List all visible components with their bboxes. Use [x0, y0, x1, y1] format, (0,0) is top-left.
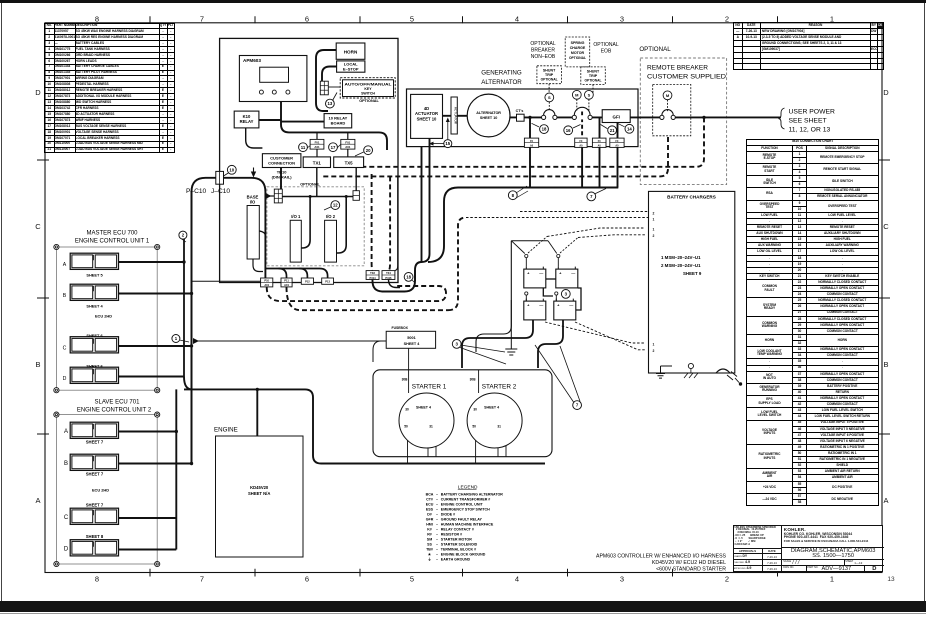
svg-text:APM603: APM603	[243, 58, 261, 63]
svg-text:17: 17	[331, 145, 336, 150]
svg-text:C: C	[63, 346, 67, 352]
svg-text:ECU 2HD: ECU 2HD	[92, 488, 109, 493]
svg-text:OPTIONAL: OPTIONAL	[541, 78, 558, 82]
svg-text:2 MSM–20–24V–U1: 2 MSM–20–24V–U1	[661, 263, 701, 268]
svg-text:K#: K#	[427, 527, 432, 531]
svg-text:15: 15	[445, 141, 450, 146]
svg-text:1: 1	[653, 343, 655, 347]
svg-text:SHEET 10: SHEET 10	[417, 116, 437, 121]
svg-text:<600V STANDARD STARTER: <600V STANDARD STARTER	[656, 567, 726, 573]
svg-text:S: S	[548, 95, 551, 100]
svg-text:31: 31	[429, 424, 433, 428]
svg-text:–: –	[436, 507, 438, 511]
svg-text:DIODE #: DIODE #	[441, 512, 455, 516]
svg-text:–: –	[436, 522, 438, 526]
svg-text:ACTUATOR: ACTUATOR	[454, 107, 458, 125]
svg-text:OPTIONAL: OPTIONAL	[639, 46, 671, 53]
svg-text:F01: F01	[315, 141, 320, 145]
svg-text:11, 12, OR 13: 11, 12, OR 13	[789, 127, 831, 134]
svg-text:STARTER MOTOR: STARTER MOTOR	[441, 537, 472, 541]
svg-text:SHEET 6: SHEET 6	[86, 364, 103, 369]
svg-text:R#: R#	[427, 532, 432, 536]
svg-text:30: 30	[473, 407, 477, 411]
svg-text:CT#: CT#	[426, 497, 433, 501]
svg-text:TX1: TX1	[313, 161, 322, 166]
svg-text:B: B	[63, 293, 67, 299]
svg-text:BREAKER: BREAKER	[531, 48, 555, 54]
svg-text:1 MSM–20–24V–U1: 1 MSM–20–24V–U1	[661, 255, 701, 260]
svg-text:–: –	[436, 517, 438, 521]
svg-text:SHEET 10: SHEET 10	[480, 116, 497, 120]
svg-text:–: –	[436, 537, 438, 541]
svg-text:GFR: GFR	[426, 517, 434, 521]
svg-text:BATTERY CHARGERS: BATTERY CHARGERS	[667, 195, 716, 200]
svg-text:OPTIONAL: OPTIONAL	[584, 79, 601, 83]
svg-text:P11: P11	[284, 279, 289, 283]
svg-text:FUSEBOX: FUSEBOX	[392, 326, 409, 330]
svg-text:SHUNT: SHUNT	[587, 70, 600, 74]
svg-text:A01: A01	[345, 145, 351, 149]
svg-text:20: 20	[366, 148, 371, 153]
svg-text:AUTO/OFF/MANUAL: AUTO/OFF/MANUAL	[345, 82, 393, 86]
svg-text:–: –	[436, 497, 438, 501]
svg-text:TRIP: TRIP	[589, 74, 598, 78]
svg-text:TX5: TX5	[345, 161, 354, 166]
svg-text:18: 18	[406, 274, 411, 279]
svg-text:D: D	[63, 376, 67, 382]
svg-text:OPTIONAL: OPTIONAL	[359, 99, 379, 103]
svg-text:SEE SHEET: SEE SHEET	[789, 118, 827, 125]
svg-text:ECU 2HD: ECU 2HD	[95, 314, 112, 319]
svg-text:A: A	[63, 262, 67, 268]
svg-text:30B: 30B	[470, 378, 477, 382]
svg-text:P10: P10	[264, 279, 269, 283]
svg-text:—: —	[539, 302, 543, 307]
svg-text:P12: P12	[305, 280, 310, 284]
svg-text:13: 13	[328, 101, 333, 106]
svg-text:ENGINE CONTROL UNIT: ENGINE CONTROL UNIT	[441, 502, 484, 506]
svg-text:–: –	[436, 512, 438, 516]
svg-text:A: A	[64, 429, 68, 435]
svg-text:SHEET 7: SHEET 7	[86, 439, 104, 444]
svg-text:A01: A01	[314, 145, 320, 149]
svg-text:SHEET 5: SHEET 5	[86, 273, 103, 278]
svg-text:–: –	[436, 557, 438, 561]
svg-text:ENGINE BLOCK GROUND: ENGINE BLOCK GROUND	[441, 552, 486, 556]
svg-text:SWITCH: SWITCH	[361, 92, 375, 96]
svg-text:SHUNT: SHUNT	[543, 69, 556, 73]
svg-text:–: –	[436, 552, 438, 556]
svg-text:11: 11	[301, 145, 306, 150]
svg-text:12: 12	[333, 203, 338, 208]
svg-text:P314: P314	[370, 276, 377, 280]
svg-text:MASTER ECU 700: MASTER ECU 700	[86, 231, 138, 237]
svg-text:MOTOR: MOTOR	[571, 51, 585, 55]
svg-text:KEY: KEY	[364, 87, 372, 91]
svg-text:—: —	[569, 302, 573, 307]
svg-text:ECU: ECU	[426, 502, 434, 506]
svg-text:ALTERNATOR: ALTERNATOR	[481, 79, 522, 86]
svg-text:E–STOP: E–STOP	[343, 67, 359, 72]
svg-text:2: 2	[653, 234, 655, 238]
svg-text:ESS: ESS	[426, 507, 434, 511]
svg-text:30: 30	[405, 407, 409, 411]
svg-text:SHEET 7: SHEET 7	[86, 503, 104, 508]
svg-text:P316: P316	[385, 276, 392, 280]
svg-text:KD45V20: KD45V20	[250, 485, 269, 490]
svg-text:RELAY: RELAY	[240, 119, 254, 124]
svg-text:I/O 1: I/O 1	[291, 214, 301, 219]
svg-text:D: D	[64, 547, 69, 553]
svg-text:ENGINE CONTROL UNIT 2: ENGINE CONTROL UNIT 2	[77, 408, 152, 414]
svg-text:SHEET 4: SHEET 4	[484, 406, 499, 410]
svg-text:(DIN RAIL): (DIN RAIL)	[272, 175, 293, 180]
svg-text:RELAY CONTACT #: RELAY CONTACT #	[441, 527, 474, 531]
svg-text:TB#: TB#	[426, 547, 433, 551]
svg-text:CUSTOMER SUPPLIED: CUSTOMER SUPPLIED	[647, 74, 727, 81]
svg-text:10: 10	[229, 167, 234, 172]
svg-text:REMOTE BREAKER: REMOTE BREAKER	[647, 65, 709, 72]
svg-text:HUMAN MACHINE INTERFACE: HUMAN MACHINE INTERFACE	[441, 522, 494, 526]
svg-text:K10: K10	[243, 114, 251, 119]
svg-text:21: 21	[610, 128, 615, 133]
svg-text:TX4: TX4	[386, 271, 391, 275]
svg-text:SHEET N/A: SHEET N/A	[248, 491, 270, 496]
svg-text:SHEET 4: SHEET 4	[86, 304, 103, 309]
svg-text:BCA: BCA	[426, 492, 434, 496]
svg-text:P13: P13	[325, 280, 330, 284]
svg-text:18: 18	[542, 127, 547, 132]
svg-text:APM603 CONTROLLER W/ ENHANC: APM603 CONTROLLER W/ ENHANCED I/O HARNES…	[596, 554, 727, 560]
svg-text:—: —	[539, 270, 543, 275]
svg-text:–: –	[436, 542, 438, 546]
svg-text:ENGINE CONTROL UNIT 1: ENGINE CONTROL UNIT 1	[75, 239, 150, 245]
svg-text:–: –	[436, 527, 438, 531]
svg-text:STARTER 2: STARTER 2	[482, 384, 517, 391]
svg-text:STARTER 1: STARTER 1	[412, 384, 447, 391]
svg-text:31: 31	[497, 424, 501, 428]
svg-text:GROUND FAULT RELAY: GROUND FAULT RELAY	[441, 517, 483, 521]
svg-text:SM: SM	[427, 537, 432, 541]
svg-text:OPTIONAL: OPTIONAL	[530, 41, 556, 47]
svg-text:SHEET 7: SHEET 7	[86, 471, 104, 476]
svg-text:SHEET 4: SHEET 4	[404, 342, 421, 346]
svg-text:ALTERNATOR: ALTERNATOR	[476, 111, 501, 115]
svg-text:1: 1	[653, 228, 655, 232]
svg-text:SPRING: SPRING	[571, 41, 585, 45]
svg-text:50: 50	[404, 424, 408, 428]
svg-text:SLAVE ECU 701: SLAVE ECU 701	[95, 400, 141, 406]
svg-text:TERMINAL BLOCK #: TERMINAL BLOCK #	[441, 547, 476, 551]
svg-text:SS: SS	[427, 542, 432, 546]
svg-text:CT's: CT's	[516, 109, 524, 113]
svg-text:—: —	[571, 270, 575, 275]
svg-text:–: –	[436, 502, 438, 506]
svg-text:TX2: TX2	[370, 271, 375, 275]
svg-text:EOB: EOB	[601, 49, 612, 55]
svg-text:OPTIONAL: OPTIONAL	[569, 56, 586, 60]
svg-text:30B: 30B	[402, 378, 409, 382]
svg-text:A01: A01	[284, 283, 289, 287]
svg-text:STARTER SOLENOID: STARTER SOLENOID	[441, 542, 478, 546]
svg-text:ENGINE: ENGINE	[214, 427, 238, 434]
svg-text:S: S	[588, 92, 591, 97]
svg-text:C: C	[64, 515, 69, 521]
svg-text:GENERATING: GENERATING	[481, 69, 522, 76]
svg-text:NON–EOB: NON–EOB	[531, 54, 556, 60]
svg-text:D#: D#	[427, 512, 432, 516]
svg-text:–: –	[436, 547, 438, 551]
svg-text:KD45V20 W/ ECU2 HD DIESEL: KD45V20 W/ ECU2 HD DIESEL	[652, 560, 726, 566]
svg-text:EMERGENCY STOP SWITCH: EMERGENCY STOP SWITCH	[441, 507, 490, 511]
svg-text:I/O 2: I/O 2	[326, 214, 336, 219]
svg-text:OPTIONAL: OPTIONAL	[593, 42, 619, 48]
svg-text:TRIP: TRIP	[545, 73, 554, 77]
svg-text:USER POWER: USER POWER	[789, 109, 836, 116]
svg-text:SHEET 8: SHEET 8	[86, 534, 104, 539]
svg-text:50: 50	[472, 424, 476, 428]
svg-text:SHEET 4: SHEET 4	[416, 406, 431, 410]
svg-text:P–C10: P–C10	[186, 188, 206, 195]
svg-text:EARTH GROUND: EARTH GROUND	[441, 557, 471, 561]
svg-text:OPTIONAL: OPTIONAL	[300, 182, 320, 186]
svg-text:SHEET 6: SHEET 6	[86, 333, 103, 338]
svg-text:B: B	[64, 461, 68, 467]
svg-text:SHEET 9: SHEET 9	[683, 271, 702, 276]
svg-text:J–C10: J–C10	[211, 188, 230, 195]
svg-text:F01: F01	[345, 141, 350, 145]
svg-text:BATTERY CHARGING ALTERNATOR: BATTERY CHARGING ALTERNATOR	[441, 492, 503, 496]
svg-text:2: 2	[653, 349, 655, 353]
svg-text:CURRENT TRANSFORMER #: CURRENT TRANSFORMER #	[441, 497, 491, 501]
svg-text:HMI: HMI	[426, 522, 433, 526]
svg-text:GFI: GFI	[613, 114, 620, 119]
svg-text:⏚: ⏚	[428, 556, 432, 561]
svg-text:5001: 5001	[407, 336, 415, 340]
svg-text:BOARD: BOARD	[331, 121, 346, 126]
svg-text:CONNECTION: CONNECTION	[268, 160, 295, 165]
svg-text:14: 14	[627, 126, 632, 131]
svg-text:HORN: HORN	[344, 50, 358, 55]
svg-text:–: –	[436, 492, 438, 496]
svg-text:RESISTOR #: RESISTOR #	[441, 532, 462, 536]
svg-text:A01: A01	[264, 283, 269, 287]
svg-text:CHARGE: CHARGE	[570, 46, 586, 50]
svg-text:★: ★	[428, 551, 432, 556]
svg-text:16: 16	[566, 128, 571, 133]
svg-text:1: 1	[653, 218, 655, 222]
svg-text:I/O: I/O	[250, 200, 256, 205]
svg-text:2: 2	[653, 212, 655, 216]
svg-text:–: –	[436, 532, 438, 536]
